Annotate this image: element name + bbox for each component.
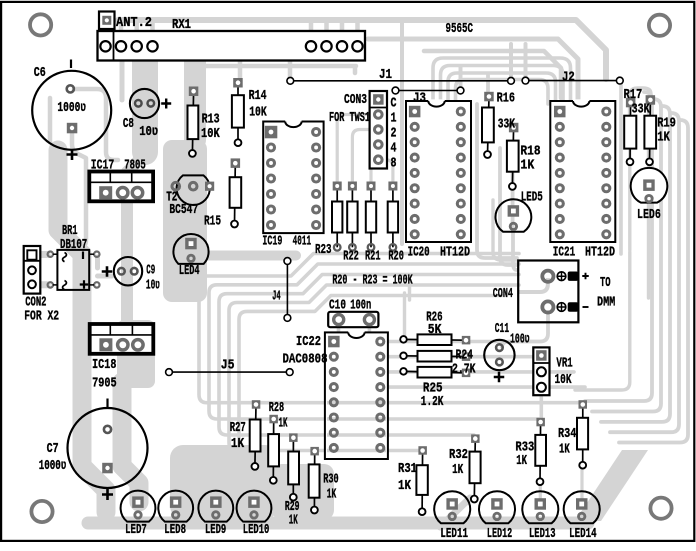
wire jumper J1 [287,77,515,84]
svg-text:DB107: DB107 [60,237,87,253]
svg-text:LED7: LED7 [125,522,147,538]
svg-text:8: 8 [391,156,397,172]
wire LED12-14 feeds [475,465,583,500]
svg-text:33K: 33K [632,102,650,118]
svg-text:J4: J4 [272,289,281,305]
svg-text:1K: 1K [231,436,245,452]
svg-text:R28: R28 [269,400,284,416]
svg-text:VR1: VR1 [556,356,572,372]
svg-text:FOR X2: FOR X2 [24,309,59,325]
wire top band [118,20,606,79]
mounting hole top-left [30,14,51,35]
svg-text:10K: 10K [249,105,267,121]
wire bottom-right wide band [575,450,648,521]
svg-text:R22: R22 [343,248,359,264]
resistor R18 [507,123,519,190]
svg-text:LED14: LED14 [569,526,597,542]
svg-text:C9: C9 [146,263,155,279]
svg-text:C7: C7 [47,441,59,457]
wire J1 feed [288,60,293,80]
wire CON3 arcs [337,115,373,183]
svg-text:LED8: LED8 [164,522,186,538]
svg-text:IC22: IC22 [296,334,321,350]
resistor R25 [400,367,470,378]
mounting hole bottom-right [650,498,671,519]
wire jumper J3 [392,87,464,94]
bridge rectifier BR1 DB107 [48,250,100,290]
wire nested bus [199,254,582,403]
svg-text:IC20: IC20 [408,245,430,261]
svg-text:LED5: LED5 [521,190,543,206]
svg-text:1K: 1K [559,442,570,458]
svg-text:R20: R20 [388,248,404,264]
svg-text:R15: R15 [204,214,221,230]
wire CON4 stub [502,312,548,347]
LED LED14 [564,491,600,523]
svg-text:2.7K: 2.7K [452,362,476,378]
LED LED6 [631,168,668,203]
wire pour arm under R20-R23 [196,251,296,261]
resistor R32 [470,434,481,502]
svg-text:C10: C10 [329,298,346,314]
capacitor C7 [68,399,148,489]
resistor R19 [644,95,656,165]
wire CON3 feed [402,21,526,244]
svg-text:LED13: LED13 [529,526,556,542]
LED LED8 [158,491,193,522]
transistor T2 BC547 [172,175,214,205]
resistor R17 [624,98,636,165]
svg-text:CON4: CON4 [493,286,513,302]
svg-text:1K: 1K [520,158,534,174]
wire IC22 right bus [386,340,502,344]
LED LED7 [121,491,156,522]
svg-text:C6: C6 [34,65,46,81]
svg-text:IC19: IC19 [262,234,282,250]
regulator IC17 7805 [89,172,153,202]
wire J2 drop [619,84,623,254]
svg-text:10K: 10K [201,126,220,142]
LED LED13 [522,491,558,523]
svg-text:J1: J1 [379,67,392,83]
svg-text:R32: R32 [449,447,468,463]
wire C7-LED7 band [122,382,139,502]
connector CON2 [24,246,41,294]
resistor R31 [416,446,427,515]
svg-text:5K: 5K [428,322,442,338]
svg-text:2: 2 [391,126,397,142]
resistor R16 [482,92,494,158]
wire CON2-BR1 [35,255,47,285]
wire C8 left stub [120,60,125,100]
svg-text:100n: 100n [350,298,371,314]
mounting hole top-right [649,15,670,36]
svg-text:1000ʋ: 1000ʋ [57,100,86,116]
IC IC20 HT12D [406,99,471,242]
resistor R34 [577,400,588,468]
wire LED7-10 pour [170,445,278,519]
resistor R13 [188,87,199,157]
LED LED9 [198,491,233,522]
svg-text:C: C [391,96,397,112]
svg-text:7805: 7805 [124,158,146,174]
svg-text:R21: R21 [365,248,381,264]
wire R26 feeds [405,283,410,336]
wire jumper J5 [166,369,294,376]
IC IC19 4011 [263,120,323,233]
svg-text:33K: 33K [498,117,516,133]
svg-text:RX1: RX1 [172,17,191,33]
svg-text:1K: 1K [657,130,670,146]
wire mid verticals [488,74,513,228]
svg-text:IC18: IC18 [92,357,116,373]
svg-text:4011: 4011 [293,234,312,250]
capacitor C11 [484,340,514,370]
LED LED10 [237,491,272,522]
svg-text:HT12D: HT12D [585,245,615,261]
capacitor C8 [130,89,159,118]
wire bottom LED band [88,517,588,530]
connector ANT.2 [99,12,115,30]
svg-text:LED9: LED9 [205,522,226,538]
svg-text:1K: 1K [398,478,411,494]
svg-text:R31: R31 [398,461,417,477]
LED LED4 [173,234,208,264]
svg-text:IC21: IC21 [553,245,576,261]
mounting hole bottom-left [31,501,52,522]
svg-text:LED12: LED12 [487,526,512,542]
connector CON3 [370,91,387,169]
resistor R26 [400,334,470,345]
svg-text:R14: R14 [249,88,267,104]
wire LED11 diag [440,498,470,527]
IC IC21 HT12D [550,99,615,242]
svg-text:1K: 1K [327,487,337,503]
svg-text:C8: C8 [123,116,134,132]
capacitor C10 [328,312,378,327]
wire R19-LED6 drop [647,104,650,298]
svg-text:1K: 1K [516,453,527,469]
svg-text:R16: R16 [497,91,515,107]
wire jumper J2 [522,77,623,84]
LED LED11 [434,491,470,523]
resistor R28 [268,415,279,484]
resistor R24 [400,351,470,362]
svg-text:R20 - R23 = 100K: R20 - R23 = 100K [332,273,413,289]
svg-text:9565C: 9565C [446,21,474,37]
svg-text:LED6: LED6 [637,207,661,223]
resistor R30 [309,447,320,514]
resistor R20 [388,182,398,251]
svg-text:CON3: CON3 [344,92,367,108]
svg-text:10ʋ: 10ʋ [139,124,158,140]
svg-text:1.2K: 1.2K [421,394,444,410]
svg-text:1K: 1K [279,416,288,432]
svg-text:J2: J2 [562,70,575,86]
wire C10 stubs [339,324,370,331]
preset VR1 [533,347,549,395]
resistor R21 [366,182,376,251]
svg-text:1000ʋ: 1000ʋ [39,458,67,474]
svg-text:1K: 1K [289,513,298,529]
svg-text:10K: 10K [555,372,572,388]
svg-text:1: 1 [391,111,397,127]
svg-text:J3: J3 [413,91,426,107]
svg-text:ANT.2: ANT.2 [116,15,152,31]
svg-text:100ʋ: 100ʋ [510,331,530,347]
wire left band B (C8/IC17/IC18) [132,57,158,152]
resistor R14 [232,78,244,146]
svg-text:HT12D: HT12D [440,245,470,261]
wire left band A [58,150,106,512]
wire central pour band [184,56,206,140]
wire IC20 wrap [433,58,571,104]
svg-text:FOR TWS1: FOR TWS1 [329,110,370,126]
svg-text:R30: R30 [323,472,338,488]
wire second band [368,39,578,100]
resistor R29 [288,433,299,500]
connector CON4 [518,261,578,323]
svg-text:1K: 1K [452,462,463,478]
wire RX1 stubs [121,22,358,31]
capacitor C6 [32,60,111,150]
wire right bundle nested [575,252,630,390]
resistor R22 [347,182,357,251]
LED LED12 [479,491,515,523]
svg-text:LED4: LED4 [179,263,200,279]
wire R17 wrap corner [630,88,652,128]
wire C6 links [74,89,118,160]
resistor R33 [535,418,546,485]
regulator IC18 7905 [90,324,154,354]
capacitor C9 [114,257,142,285]
svg-text:7905: 7905 [92,376,117,392]
svg-text:10ʋ: 10ʋ [146,278,160,294]
svg-text:TO: TO [600,275,611,291]
svg-text:BC547: BC547 [169,202,198,218]
wire under RX1 [196,60,356,79]
svg-text:DMM: DMM [597,295,615,311]
module RX1 [98,31,366,61]
resistor R27 [250,400,261,470]
wire third band [424,51,561,98]
svg-text:LED10: LED10 [243,522,269,538]
svg-text:C11: C11 [495,321,509,337]
wire T2 feed [190,156,194,186]
LED LED5 [495,199,531,231]
svg-text:4: 4 [391,141,397,157]
svg-text:LED11: LED11 [440,526,468,542]
svg-text:J5: J5 [221,358,235,374]
svg-text:DAC0808: DAC0808 [283,352,328,368]
svg-text:IC17: IC17 [91,158,115,174]
svg-text:R23: R23 [315,242,332,258]
wire jumper J4 [284,258,291,322]
resistor R15 [230,158,242,227]
resistor R23 [332,182,342,251]
IC IC22 DAC0808 [325,331,388,459]
svg-text:R34: R34 [558,426,576,442]
svg-text:R27: R27 [230,420,246,436]
